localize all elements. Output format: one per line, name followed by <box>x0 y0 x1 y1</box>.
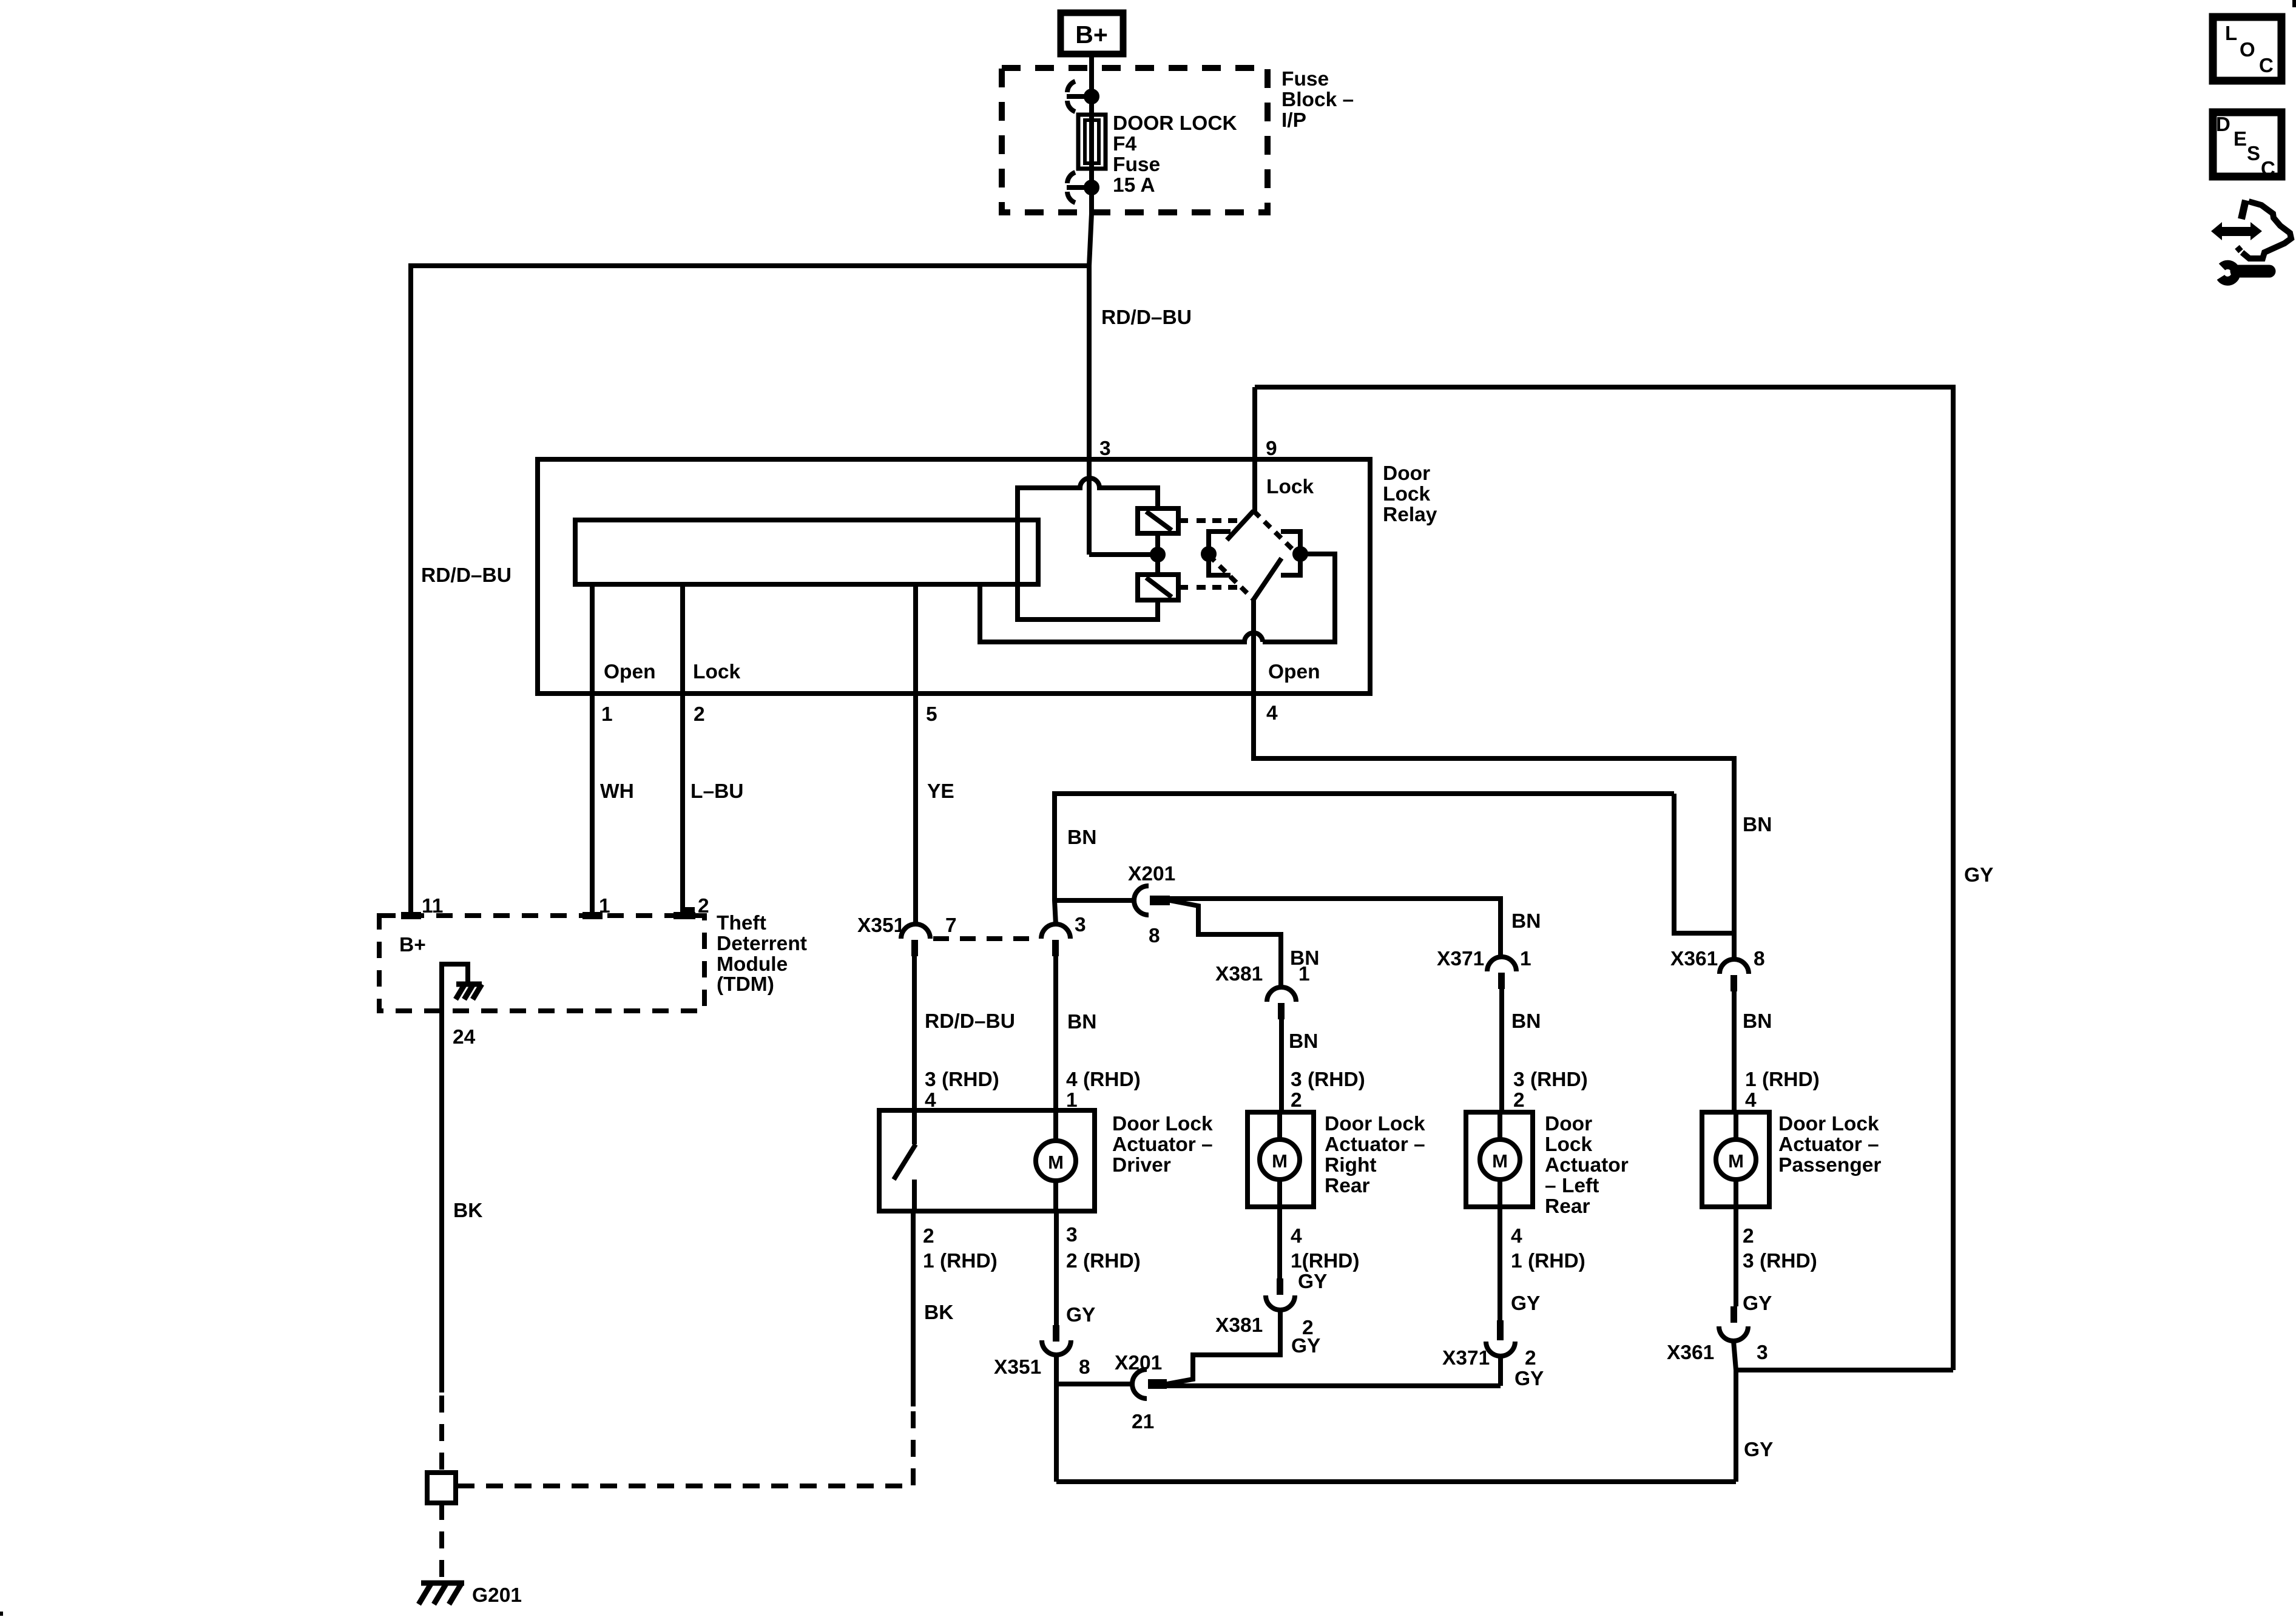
X201 pin21 labels <box>1115 1352 1162 1433</box>
coil L2 (open) <box>1138 575 1178 600</box>
svg-text:3 (RHD): 3 (RHD) <box>925 1068 999 1091</box>
Door Lock Actuator Right Rear box <box>1248 1112 1314 1207</box>
svg-text:1 (RHD): 1 (RHD) <box>923 1250 998 1272</box>
svg-text:3: 3 <box>1075 914 1086 936</box>
svg-text:GY: GY <box>1298 1271 1327 1293</box>
svg-text:Actuator: Actuator <box>1545 1154 1629 1176</box>
svg-text:X381: X381 <box>1215 1314 1263 1337</box>
svg-text:1(RHD): 1(RHD) <box>1291 1250 1360 1272</box>
svg-text:Door Lock: Door Lock <box>1112 1113 1213 1135</box>
connector X351 pin 7 <box>901 924 930 956</box>
right rear below labels <box>1215 1225 1360 1357</box>
svg-text:1: 1 <box>601 703 613 726</box>
svg-text:5: 5 <box>926 703 937 726</box>
pin labels below relay <box>601 702 1278 726</box>
svg-text:Door: Door <box>1383 462 1430 485</box>
wire X371-1 to left rear motor <box>1499 989 1504 1112</box>
svg-text:Lock: Lock <box>693 661 741 683</box>
X201 pin8 labels <box>1128 863 1175 947</box>
svg-text:B+: B+ <box>1075 21 1108 49</box>
svg-text:BK: BK <box>924 1301 953 1324</box>
svg-text:Door Lock: Door Lock <box>1325 1113 1425 1135</box>
svg-text:Block –: Block – <box>1281 89 1354 111</box>
connector X371 pin 1 <box>1487 957 1516 989</box>
svg-text:8: 8 <box>1079 1356 1090 1379</box>
svg-text:4: 4 <box>1511 1225 1522 1247</box>
left rear GY wire <box>1497 1207 1502 1326</box>
pin 2 wire <box>683 584 692 916</box>
pin 4 wire (Open) to X361 <box>1254 599 1734 959</box>
TDM pin 1 terminal tick <box>582 912 603 919</box>
svg-text:GY: GY <box>1743 1292 1772 1315</box>
svg-text:2: 2 <box>694 703 705 726</box>
svg-text:DOOR LOCK: DOOR LOCK <box>1113 112 1237 135</box>
svg-text:M: M <box>1048 1152 1064 1173</box>
page corner mark top right <box>2292 0 2296 7</box>
driver motor M <box>1036 1110 1076 1211</box>
right rear GY wire <box>1277 1207 1282 1278</box>
svg-text:X361: X361 <box>1667 1342 1714 1364</box>
wire X361-3 junction <box>1734 1341 1736 1482</box>
svg-text:B+: B+ <box>399 934 426 956</box>
left rear motor M <box>1480 1112 1520 1207</box>
svg-text:Open: Open <box>1268 661 1320 683</box>
svg-text:Lock: Lock <box>1545 1133 1593 1156</box>
wire X361-8 to passenger motor <box>1732 991 1737 1112</box>
svg-text:X361: X361 <box>1670 948 1718 970</box>
svg-text:(TDM): (TDM) <box>717 973 774 996</box>
svg-text:1: 1 <box>1520 948 1531 970</box>
wire B+ to fuse <box>1089 57 1094 116</box>
connector X361 pin 3 <box>1719 1306 1748 1341</box>
TDM labels <box>399 895 807 996</box>
svg-text:YE: YE <box>927 780 954 803</box>
left contact bracket <box>1203 532 1231 575</box>
svg-text:I/P: I/P <box>1281 109 1306 132</box>
connector X351 pin 3 <box>1041 924 1070 956</box>
passenger below labels <box>1667 1225 1817 1461</box>
svg-text:3 (RHD): 3 (RHD) <box>1291 1068 1365 1091</box>
svg-text:Passenger: Passenger <box>1778 1154 1881 1176</box>
connector X381 pin 1 <box>1267 987 1296 1019</box>
left rear wire labels <box>1511 1010 1588 1112</box>
dashed wire splice to driver switch <box>458 1406 913 1486</box>
wire X201-21 to X371-2 <box>1167 1383 1501 1388</box>
wire right contact to loop <box>1263 554 1335 642</box>
service icon double arrow <box>2211 222 2262 240</box>
svg-text:1: 1 <box>599 895 610 917</box>
Theft Deterrent Module dashed box <box>379 916 704 1011</box>
svg-text:C: C <box>2259 54 2274 76</box>
svg-text:BN: BN <box>1067 1011 1096 1033</box>
splice box <box>427 1473 456 1503</box>
svg-text:2 (RHD): 2 (RHD) <box>1066 1250 1141 1272</box>
X351 pin8 labels <box>994 1356 1090 1379</box>
svg-text:2: 2 <box>698 895 709 917</box>
coil tick and dashed link upper <box>1178 518 1238 523</box>
relay coil frame <box>1018 478 1158 619</box>
wire BN to X361 pin 8 <box>1674 794 1734 933</box>
svg-text:C: C <box>2261 157 2275 180</box>
right rear actuator label <box>1325 1113 1425 1197</box>
svg-text:9: 9 <box>1266 437 1277 460</box>
svg-text:Lock: Lock <box>1266 476 1314 498</box>
page mark bottom left <box>0 1612 3 1616</box>
terminal clip upper <box>1067 81 1097 112</box>
right contact bracket <box>1281 532 1306 575</box>
left rear below labels <box>1442 1225 1585 1390</box>
svg-text:1 (RHD): 1 (RHD) <box>1511 1250 1585 1272</box>
svg-text:L: L <box>2225 22 2237 44</box>
switch blade upper <box>1227 511 1254 540</box>
svg-text:RD/D–BU: RD/D–BU <box>925 1010 1015 1033</box>
TDM internal ground symbol <box>442 964 482 1011</box>
coil L1 (lock) <box>1138 508 1178 533</box>
svg-text:L–BU: L–BU <box>690 780 743 803</box>
wire X201-21 to X381-2 <box>1167 1310 1280 1384</box>
svg-text:WH: WH <box>600 780 634 803</box>
wire bar to loop with hop <box>980 584 1263 642</box>
passenger actuator label <box>1778 1113 1881 1176</box>
svg-text:BN: BN <box>1511 1010 1541 1033</box>
svg-text:2: 2 <box>923 1225 934 1247</box>
GY bottom bus <box>1056 1479 1736 1484</box>
wire X351-3 to driver motor <box>1053 956 1058 1110</box>
relay armature bar <box>575 520 1038 584</box>
svg-text:GY: GY <box>1964 864 1993 886</box>
X361 pin8 labels <box>1670 948 1765 970</box>
svg-text:11: 11 <box>422 895 443 917</box>
coil tick and dashed link lower <box>1178 585 1238 590</box>
svg-text:Lock: Lock <box>1383 483 1431 505</box>
svg-text:RD/D–BU: RD/D–BU <box>1101 306 1192 329</box>
passenger wire labels <box>1743 1010 1820 1112</box>
svg-text:S: S <box>2247 142 2260 164</box>
pin 24 BK wire <box>439 1011 444 1393</box>
Door Lock Actuator Passenger box <box>1702 1112 1769 1207</box>
svg-text:24: 24 <box>453 1026 476 1048</box>
svg-text:3 (RHD): 3 (RHD) <box>1513 1068 1588 1091</box>
svg-text:M: M <box>1272 1150 1288 1172</box>
TDM pin 2 terminal tick <box>674 912 695 919</box>
GY wire below driver motor <box>1054 1211 1059 1325</box>
driver lock switch <box>894 1110 916 1211</box>
driver below labels <box>923 1224 1141 1326</box>
svg-text:– Left: – Left <box>1545 1175 1599 1197</box>
wire color labels below relay <box>600 780 954 803</box>
passenger motor M <box>1716 1112 1756 1207</box>
wire X381-1 to right rear motor <box>1279 1019 1284 1112</box>
wire X201-8 to X371 feed <box>1170 899 1501 957</box>
G201 ground symbol <box>419 1583 464 1604</box>
service icon wrench <box>2221 265 2269 281</box>
svg-text:Door Lock: Door Lock <box>1778 1113 1879 1135</box>
terminal clip lower <box>1067 172 1097 203</box>
wire fuse to relay pin 3 <box>1089 170 1092 555</box>
svg-text:E: E <box>2234 127 2247 150</box>
svg-text:BK: BK <box>453 1200 482 1222</box>
connector X371 pin 2 <box>1486 1320 1515 1356</box>
svg-text:1: 1 <box>1298 963 1310 985</box>
svg-text:Actuator –: Actuator – <box>1112 1133 1213 1156</box>
svg-text:BN: BN <box>1743 814 1772 836</box>
svg-text:4: 4 <box>1266 702 1278 724</box>
svg-text:Door: Door <box>1545 1113 1592 1135</box>
wire GY riser to X361 junction <box>1736 1368 1953 1372</box>
svg-text:Rear: Rear <box>1325 1175 1370 1197</box>
wire X351-8 down to GY bus <box>1054 1355 1059 1482</box>
BK dashed wire down <box>439 1396 444 1473</box>
Door Lock Relay box <box>538 459 1370 694</box>
svg-text:2: 2 <box>1513 1089 1525 1112</box>
svg-text:BN: BN <box>1743 1010 1772 1033</box>
svg-text:4: 4 <box>1291 1225 1302 1247</box>
svg-text:Open: Open <box>604 661 656 683</box>
X381 pin1 labels <box>1215 963 1310 985</box>
svg-text:M: M <box>1492 1150 1508 1172</box>
svg-text:D: D <box>2216 113 2230 135</box>
svg-text:2: 2 <box>1743 1225 1754 1247</box>
driver wire labels <box>925 1010 1015 1112</box>
svg-text:2: 2 <box>1525 1347 1536 1369</box>
connector X361 pin 8 <box>1720 959 1749 991</box>
svg-text:GY: GY <box>1066 1304 1095 1326</box>
svg-text:BN: BN <box>1511 910 1541 933</box>
fuse block label <box>1281 68 1354 132</box>
svg-text:O: O <box>2240 38 2255 61</box>
svg-text:3 (RHD): 3 (RHD) <box>1743 1250 1817 1272</box>
svg-text:GY: GY <box>1744 1439 1773 1461</box>
svg-text:Fuse: Fuse <box>1281 68 1329 90</box>
DESC box icon <box>2213 112 2281 180</box>
dashed connector link X351 <box>933 936 1039 941</box>
service icon hand outline <box>2237 200 2291 258</box>
fuse labels <box>1113 112 1237 197</box>
wire branch to X201-21 <box>1056 1382 1132 1386</box>
svg-text:4: 4 <box>1745 1089 1757 1112</box>
svg-text:X351: X351 <box>994 1356 1041 1379</box>
svg-text:3: 3 <box>1757 1342 1768 1364</box>
connector X201 pin 21 <box>1132 1369 1167 1399</box>
BK wire below driver switch <box>911 1211 916 1406</box>
svg-text:X201: X201 <box>1115 1352 1162 1374</box>
svg-text:GY: GY <box>1514 1368 1544 1390</box>
passenger GY wire <box>1734 1207 1738 1306</box>
svg-text:F4: F4 <box>1113 133 1136 155</box>
svg-text:Rear: Rear <box>1545 1195 1590 1218</box>
svg-text:Right: Right <box>1325 1154 1377 1176</box>
B+ battery feed box <box>1061 13 1123 54</box>
svg-text:Fuse: Fuse <box>1113 154 1160 176</box>
BN wire corner to X201 junction <box>1055 794 1674 924</box>
svg-text:Module: Module <box>717 953 788 976</box>
svg-text:21: 21 <box>1132 1411 1154 1433</box>
svg-text:Theft: Theft <box>717 912 766 934</box>
fuse F4 symbol <box>1078 115 1106 169</box>
LOC box icon <box>2213 17 2281 81</box>
svg-text:3: 3 <box>1099 437 1111 460</box>
Door Lock Actuator Left Rear box <box>1466 1112 1533 1207</box>
wire X371-2 to GY bus <box>1498 1356 1503 1386</box>
right rear wire labels <box>1289 1030 1365 1112</box>
wire top horizontal to GY riser <box>1255 387 1953 1370</box>
TDM pin 11 terminal tick <box>401 912 421 919</box>
connector X381 pin 2 <box>1266 1278 1295 1310</box>
svg-text:X371: X371 <box>1442 1347 1490 1369</box>
svg-text:8: 8 <box>1754 948 1765 970</box>
switch blade lower <box>1254 558 1281 599</box>
pin 5 wire <box>913 584 918 925</box>
driver actuator label <box>1112 1113 1213 1176</box>
dashed wire to G201 <box>439 1503 444 1578</box>
Fuse Block - I/P dashed box <box>1002 68 1268 212</box>
relay label <box>1383 462 1437 526</box>
svg-text:X201: X201 <box>1128 863 1175 885</box>
connector X201 pin 8 <box>1134 886 1170 915</box>
svg-text:Relay: Relay <box>1383 504 1437 526</box>
coil junction wire to pin 3 <box>1089 533 1163 575</box>
wire junction to X201 pin 8 <box>1055 898 1133 903</box>
svg-text:BN: BN <box>1289 1030 1318 1053</box>
svg-text:GY: GY <box>1511 1292 1540 1315</box>
svg-text:7: 7 <box>945 914 957 937</box>
Door Lock Actuator Driver box <box>879 1110 1095 1211</box>
svg-text:3: 3 <box>1066 1224 1078 1246</box>
svg-text:M: M <box>1728 1150 1744 1172</box>
svg-text:4 (RHD): 4 (RHD) <box>1066 1068 1141 1091</box>
connector X351 pin 8 <box>1042 1325 1071 1355</box>
svg-text:GY: GY <box>1291 1335 1320 1357</box>
wire X351-7 to driver switch <box>912 956 917 1110</box>
pin 9 wire (Lock) <box>1252 387 1257 511</box>
svg-text:Actuator –: Actuator – <box>1325 1133 1425 1156</box>
wire branch left to TDM pin 11 <box>411 266 1089 916</box>
svg-text:Driver: Driver <box>1112 1154 1171 1176</box>
svg-text:G201: G201 <box>472 1584 522 1607</box>
left rear actuator label <box>1545 1113 1629 1218</box>
pin 1 wire <box>590 584 595 916</box>
svg-text:Actuator –: Actuator – <box>1778 1133 1879 1156</box>
svg-text:RD/D–BU: RD/D–BU <box>421 564 512 587</box>
svg-text:BN: BN <box>1067 826 1096 849</box>
svg-text:2: 2 <box>1291 1089 1302 1112</box>
right rear motor M <box>1260 1112 1300 1207</box>
svg-text:15 A: 15 A <box>1113 174 1155 197</box>
svg-text:X351: X351 <box>857 914 905 937</box>
wire branch to X381 <box>1170 900 1281 987</box>
switch diamond dashed edges <box>1209 511 1298 599</box>
svg-text:Deterrent: Deterrent <box>717 933 807 955</box>
svg-text:X371: X371 <box>1437 948 1484 970</box>
svg-text:1 (RHD): 1 (RHD) <box>1745 1068 1820 1091</box>
svg-text:8: 8 <box>1149 925 1160 947</box>
motor wire labels <box>1066 1011 1141 1112</box>
X371 pin1 labels <box>1437 948 1531 970</box>
svg-text:X381: X381 <box>1215 963 1263 985</box>
X351 pin7 labels <box>857 914 957 937</box>
